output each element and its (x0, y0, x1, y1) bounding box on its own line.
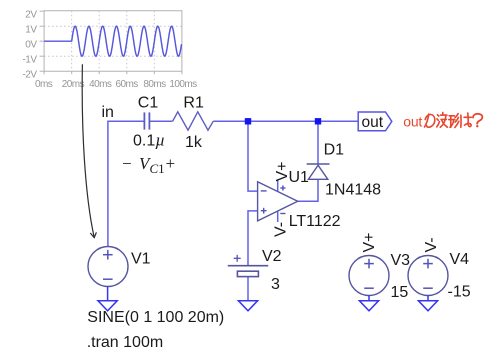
svg-text:20ms: 20ms (62, 79, 85, 90)
wire: opamp V- stub (277, 211, 279, 222)
diode D1 (307, 164, 330, 179)
svg-text:V-: V- (273, 222, 290, 237)
op-amp U1 triangle (258, 182, 298, 221)
kanji no (425, 114, 429, 127)
svg-text:80ms: 80ms (143, 79, 166, 90)
wire: in down to V1 (107, 121, 109, 247)
svg-text:60ms: 60ms (115, 79, 138, 90)
kanji katachi (shape) (449, 115, 454, 117)
svg-text:− VC1+: − VC1+ (122, 154, 175, 176)
svg-text:V1: V1 (131, 251, 151, 268)
svg-text:V2: V2 (262, 248, 282, 265)
junction node above D1 (315, 118, 321, 124)
kanji nami (wave) (437, 115, 438, 116)
wire: opamp V+ stub (277, 180, 279, 191)
svg-text:V3: V3 (391, 252, 411, 269)
voltage source V3 (349, 256, 389, 296)
svg-text:LT1122: LT1122 (289, 213, 341, 230)
annotation arrow from plot to V1 (82, 64, 96, 237)
resistor R1 (173, 112, 214, 130)
op-amp V+ power mark (280, 185, 285, 190)
svg-text:D1: D1 (324, 142, 345, 159)
junction node at R1/out rail (245, 118, 251, 124)
V1 ground (98, 287, 117, 311)
V3 ground (359, 296, 378, 311)
V1 minus mark (103, 278, 113, 280)
op-amp minus input mark (261, 190, 267, 192)
wire: opamp output to diode branch (298, 179, 318, 201)
svg-text:0ms: 0ms (35, 79, 53, 90)
V2 ground (238, 301, 257, 311)
svg-text:1V: 1V (25, 24, 37, 35)
wire: diode top to out rail (317, 121, 319, 164)
V4 ground (418, 296, 437, 311)
out net flag (358, 112, 392, 131)
svg-text:V4: V4 (450, 251, 470, 268)
voltage source V4 (408, 256, 448, 296)
plot x labels (35, 79, 197, 90)
svg-text:C1: C1 (138, 94, 159, 111)
voltage source V1 (88, 247, 128, 287)
V3 minus mark (364, 287, 374, 289)
svg-text:15: 15 (391, 284, 409, 301)
svg-text:R1: R1 (183, 95, 204, 112)
svg-text:out: out (362, 114, 384, 131)
svg-text:V-: V- (423, 237, 440, 252)
V4 plus mark (423, 259, 433, 269)
svg-text:V+: V+ (274, 161, 291, 181)
hiragana ha (460, 115, 462, 127)
wire: in corner to C1 (108, 121, 359, 301)
V1 plus mark (103, 250, 113, 260)
svg-text:3: 3 (271, 276, 280, 293)
red question mark (473, 114, 482, 124)
svg-text:.tran 100m: .tran 100m (87, 334, 163, 351)
svg-text:-15: -15 (448, 284, 471, 301)
svg-text:in: in (102, 104, 114, 121)
plot y labels (22, 9, 37, 80)
capacitor C1 (144, 112, 149, 129)
battery V2 (228, 266, 268, 277)
wire: V2 bottom to ground (247, 277, 249, 301)
svg-text:100ms: 100ms (169, 79, 197, 90)
svg-text:U1: U1 (289, 169, 310, 186)
wire: C1 to R1 (149, 120, 172, 122)
plot gridlines (44, 11, 182, 71)
V3 plus mark (364, 259, 374, 269)
svg-text:40ms: 40ms (89, 79, 112, 90)
svg-text:-1V: -1V (22, 54, 37, 65)
op-amp V- power mark (280, 213, 285, 215)
sine waveform V1 trace (44, 26, 181, 56)
svg-text:1k: 1k (185, 134, 203, 151)
waveform plot frame (40, 11, 182, 74)
svg-text:1N4148: 1N4148 (325, 182, 381, 199)
V2 plus mark (234, 255, 241, 262)
svg-text:0.1µ: 0.1µ (133, 131, 165, 150)
svg-text:2V: 2V (25, 9, 37, 20)
wire: R1 to out flag (top rail) (213, 120, 358, 122)
svg-text:SINE(0 1 100 20m): SINE(0 1 100 20m) (87, 309, 224, 326)
op-amp plus input mark (261, 208, 267, 214)
svg-text:out: out (403, 114, 422, 130)
V4 minus mark (423, 287, 433, 289)
wire: junction down to opamp minus input (248, 121, 258, 191)
wire: opamp plus input to V2 (248, 211, 258, 266)
svg-text:0V: 0V (25, 39, 37, 50)
svg-text:V+: V+ (361, 232, 378, 252)
